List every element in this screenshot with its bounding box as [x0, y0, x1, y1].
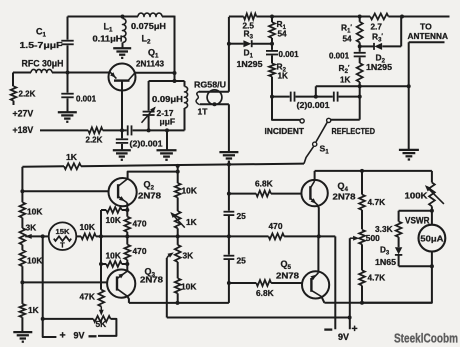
label 2N1143 [136, 60, 164, 69]
svg-text:470: 470 [269, 221, 283, 231]
wire emitter line to -9V [334, 236, 336, 329]
label 2.2K [19, 90, 36, 99]
wire chain upper [228, 164, 230, 210]
RFC 30uH choke [13, 69, 109, 72]
label L1 [104, 22, 114, 34]
svg-text:10K: 10K [80, 222, 95, 232]
label Q4 [338, 181, 349, 193]
3K wiper arrow [25, 234, 43, 239]
svg-text:100K: 100K [405, 191, 429, 201]
ground (coax shield) [219, 152, 238, 162]
label 1N65 [375, 258, 396, 267]
potentiometer 500 [359, 230, 365, 270]
capacitor (2)0.001 series coupling [128, 125, 149, 135]
wire Q4 collector line [315, 169, 432, 173]
svg-text:3K: 3K [26, 223, 37, 233]
svg-text:10K: 10K [106, 251, 121, 261]
svg-text:6.8K: 6.8K [255, 178, 273, 188]
label 15K (thermistor) [56, 227, 70, 236]
svg-text:9V: 9V [74, 331, 85, 341]
label 1K (R2') [340, 76, 351, 85]
label R2' [339, 63, 350, 75]
wire Q4 collector up [314, 171, 316, 181]
node mid column / emitter line [176, 234, 180, 238]
label 2N78 (Q5) [276, 271, 299, 281]
ground (L1) [113, 48, 131, 58]
node: C1 / RFC / bypass junction [66, 71, 70, 75]
svg-text:1T: 1T [198, 106, 209, 116]
label 0.11uH [93, 35, 123, 44]
label 1T [198, 106, 209, 116]
battery 9V (left) labels [60, 330, 97, 342]
label Q3 [145, 267, 156, 279]
node R1 top [270, 15, 274, 19]
svg-text:INCIDENT: INCIDENT [265, 126, 305, 136]
node 470 branch [227, 234, 231, 238]
svg-text:μμF: μμF [160, 117, 176, 127]
diode D1 1N295 [227, 40, 274, 47]
resistor 470 (to Q4 emitter) [269, 233, 336, 239]
label R2 [277, 62, 287, 74]
label 0.075uH [131, 22, 166, 31]
label REFLECTED [332, 126, 376, 136]
switch S1 arm [316, 122, 327, 142]
label T (thermistor) [60, 241, 65, 250]
svg-text:500: 500 [366, 233, 380, 243]
label 2.2K (+18V) [86, 136, 103, 145]
svg-text:47K: 47K [80, 292, 95, 302]
resistor 1K (in long rail) [64, 163, 81, 169]
svg-text:3K: 3K [183, 251, 194, 261]
label 25 (upper) [237, 211, 247, 221]
svg-text:25: 25 [237, 256, 247, 266]
wire incident branch [272, 97, 300, 120]
thermistor 15K/T circle [49, 222, 77, 250]
label 500 [366, 233, 380, 243]
svg-text:9V: 9V [338, 332, 349, 342]
coupling loop 1T [207, 90, 222, 105]
label R1' [341, 23, 352, 35]
node center tap + wire up [314, 86, 409, 98]
resistor 10K (to Q2 emitter) [101, 207, 129, 213]
node R1' top [358, 15, 362, 19]
svg-text:10K: 10K [27, 207, 42, 217]
svg-text:VSWR: VSWR [405, 215, 430, 225]
inductor L2 0.075uH (in top rail) [138, 13, 162, 16]
resistor R3 2.5 [244, 14, 257, 20]
contact INCIDENT [300, 119, 304, 123]
transistor Q4 2N78 [301, 180, 327, 206]
svg-text:+: + [60, 330, 66, 342]
wire Q2 collector up [128, 170, 180, 179]
bridge top wire [229, 16, 450, 18]
label 1K (rheostat) [186, 217, 197, 227]
svg-text:5K: 5K [96, 319, 107, 329]
wire chain lower [228, 260, 230, 303]
label 0.001 (left bridge) [279, 50, 300, 59]
watermark [394, 332, 458, 346]
label 4.7K (upper) [368, 197, 386, 207]
wire meter return [362, 266, 432, 303]
resistor 6.8K (Q4 base) [229, 191, 302, 197]
label 10K (mid column) [182, 186, 197, 196]
node 6.8K Q5 branch [227, 281, 231, 285]
svg-text:54: 54 [343, 35, 353, 44]
svg-text:REFLECTED: REFLECTED [332, 126, 376, 136]
wire Q2 base line [22, 190, 108, 192]
label 1N295 (D2) [366, 63, 392, 72]
diode D3 1N65 [395, 247, 432, 266]
label 0.001 (osc) [76, 95, 97, 104]
label R1 [277, 19, 287, 31]
label ANTENNA [408, 31, 449, 41]
node Q1 base junction [120, 128, 124, 132]
label D2 [376, 53, 386, 65]
svg-text:0.001: 0.001 [76, 95, 97, 104]
svg-text:T: T [60, 241, 65, 250]
ground (antenna) [399, 150, 419, 160]
svg-text:4.7K: 4.7K [368, 197, 386, 207]
wire coax center up to bridge [228, 17, 230, 92]
label 10K (rail upper) [27, 207, 42, 217]
svg-text:+18V: +18V [13, 125, 34, 135]
wire long rail from S1 [22, 164, 304, 167]
svg-text:1N65: 1N65 [375, 258, 396, 267]
resistor 10K (after 15K) [76, 234, 268, 240]
label D3 [380, 246, 390, 257]
capacitors (2)0.001 coupling pair [272, 92, 360, 102]
inductor 0.09uH (tank right) [185, 81, 188, 130]
label 50uA [420, 234, 443, 243]
meter VSWR 50uA [419, 225, 446, 252]
ground (left rail) [13, 332, 32, 342]
coax link top wire [199, 91, 229, 93]
resistor 6.8K (Q5 base) [229, 280, 302, 286]
label (2)0,001 (bridge) [297, 101, 330, 110]
svg-text:15K: 15K [56, 227, 70, 236]
wire +18V feed line [40, 129, 127, 131]
svg-text:3.3K: 3.3K [375, 224, 393, 234]
wire 3.3K branch top [399, 211, 432, 222]
wire chain middle [228, 216, 230, 255]
svg-text:1N295: 1N295 [366, 63, 392, 72]
capacitor 0.001 (emitter bypass) [61, 73, 73, 112]
svg-text:1N295: 1N295 [237, 60, 263, 69]
label S1 [320, 144, 330, 156]
svg-text:+27V: +27V [13, 109, 34, 119]
svg-text:2N78: 2N78 [333, 192, 356, 202]
svg-text:0.09μH: 0.09μH [152, 95, 183, 104]
svg-text:2N78: 2N78 [138, 191, 161, 201]
svg-text:1K: 1K [340, 76, 351, 85]
svg-text:RG58/U: RG58/U [194, 80, 226, 90]
wire Q3 collector line [129, 301, 229, 305]
svg-text:6.8K: 6.8K [256, 288, 274, 298]
label 2-17 [157, 108, 174, 118]
node meter top [430, 209, 434, 213]
node Q2/Q3 emitter junction [125, 234, 129, 238]
label 1.5-7uuF [20, 41, 63, 50]
svg-text:0.075μH: 0.075μH [131, 22, 166, 31]
label +18V [13, 125, 34, 135]
label +27V [13, 109, 34, 119]
label R3 [244, 29, 254, 41]
label 54 (R1) [278, 30, 288, 39]
wire wiper to 15K [43, 235, 49, 237]
svg-text:(2)0.001: (2)0.001 [297, 101, 330, 110]
label 25 (lower) [237, 256, 247, 266]
capacitor 0.001 (right bridge) [354, 46, 366, 63]
label 10K (to Q3 emitter) [106, 251, 121, 261]
label 5K [96, 319, 107, 329]
svg-text:0.001: 0.001 [279, 50, 300, 59]
capacitor C1 1.5-7uuF (vertical branch) [61, 17, 73, 73]
wire coax shield to ground [228, 104, 230, 151]
wire Q5 collector [321, 297, 432, 305]
wire meter bottom lead [430, 252, 434, 269]
wire feedback line to +9V [167, 316, 352, 320]
label 10K (right of Q3) [181, 282, 196, 292]
svg-text:1K: 1K [66, 152, 78, 162]
wire Q3 base line [22, 281, 107, 283]
resistor 10K (to Q3 emitter) [101, 261, 129, 267]
svg-text:1K: 1K [28, 305, 39, 315]
svg-text:0.11μH: 0.11μH [93, 35, 123, 44]
svg-text:470: 470 [133, 219, 147, 229]
wire S1 to long rail [304, 146, 314, 163]
svg-text:10K: 10K [182, 186, 197, 196]
rheostat 3K (mid column) [175, 245, 181, 278]
wire meter top lead [431, 211, 433, 225]
svg-text:10K: 10K [106, 215, 121, 225]
transistor Q2 2N78 [109, 178, 137, 206]
label 0.09uH [152, 95, 183, 104]
label C1 [36, 27, 47, 39]
label 3K (rail) [26, 223, 37, 233]
svg-text:ANTENNA: ANTENNA [408, 31, 449, 41]
label 2.7 [371, 23, 383, 32]
label L2 [142, 34, 152, 46]
svg-text:2.2K: 2.2K [86, 136, 103, 145]
wire wiper rail down [41, 236, 57, 337]
label Q1 [148, 48, 159, 60]
label 1N295 (D1) [237, 60, 263, 69]
label RFC 30uH [22, 59, 64, 69]
node Q2 base branch [20, 189, 24, 193]
svg-text:10K: 10K [181, 282, 196, 292]
inductor L1 0.11uH [121, 15, 126, 48]
svg-text:54: 54 [278, 30, 288, 39]
3K wiper bent arrow [167, 252, 174, 258]
label + (right battery) [352, 323, 358, 335]
label D1 [244, 48, 254, 60]
label 100K [405, 191, 429, 201]
node mid-left column top [99, 234, 103, 238]
label 2N78 (Q3) [140, 275, 163, 285]
transistor Q1 2N1143 [109, 64, 136, 91]
node 10K rail top junction [176, 164, 180, 168]
label 470 (Q4) [269, 221, 283, 231]
switch S1 pivot [313, 142, 317, 146]
resistor 10K (left rail upper) [20, 202, 26, 228]
svg-text:4.7K: 4.7K [368, 273, 386, 283]
svg-text:2.7: 2.7 [371, 23, 383, 32]
label 6.8K (Q4) [255, 178, 273, 188]
label RG58/U [194, 80, 226, 90]
wire top rail of oscillator [68, 16, 175, 81]
wire Q1 base down [121, 81, 123, 131]
tank circuit top wire [149, 79, 185, 83]
label 9V (right) [338, 332, 349, 342]
wire Q2 emitter down [126, 203, 128, 210]
resistor R3' 2.7 [370, 14, 388, 20]
label (2)0.001 [130, 140, 163, 149]
label 470 (lower) [133, 246, 147, 256]
label 470 (upper) [133, 219, 147, 229]
capacitor 25 (lower) [224, 256, 235, 259]
ground (emitter bypass) [58, 112, 77, 122]
resistor 1K (left rail lower) [20, 304, 26, 332]
label 3K (rheostat) [183, 251, 194, 261]
resistor 10K (right of Q3) [175, 278, 181, 303]
label uuF (tank) [160, 117, 176, 127]
svg-text:0.001: 0.001 [329, 52, 350, 61]
label TO [420, 22, 432, 32]
variable capacitor 2-17uuF (tank left) [142, 81, 156, 130]
label R3' [372, 32, 383, 44]
wire Q4 emitter down [317, 205, 321, 238]
label 10K (rail lower) [27, 256, 42, 266]
svg-text:SteeklCoobm: SteeklCoobm [394, 332, 458, 346]
wire 3K wiper feedback down [166, 258, 168, 318]
resistor 4.7K (lower) [359, 270, 365, 303]
label 47K [80, 292, 95, 302]
rheostat 1K (mid column) [170, 211, 185, 245]
wire Q1 collector to tank [135, 71, 177, 75]
transistor Q5 2N78 [302, 271, 329, 298]
svg-text:25: 25 [237, 211, 247, 221]
svg-text:1K: 1K [278, 72, 289, 81]
label 6.8K (Q5) [256, 288, 274, 298]
node 3K wiper / down-wire [41, 234, 45, 238]
coax link bottom wire [200, 102, 229, 106]
coax cable end squiggle [196, 91, 200, 104]
svg-text:50μA: 50μA [420, 234, 443, 243]
wire ground branch (tank bottom) [165, 128, 169, 149]
svg-text:2N78: 2N78 [140, 275, 163, 285]
capacitor (2)0.001 shunt + ground [113, 130, 131, 159]
node chain top [227, 162, 231, 166]
wire +9V lead up to 500 wiper [349, 238, 351, 329]
battery 9V (right) minus lead label [324, 328, 332, 330]
svg-text:470: 470 [133, 246, 147, 256]
potentiometer 5K [43, 316, 117, 336]
label 54 (R1') [343, 35, 353, 44]
label 2N78 (Q4) [333, 192, 356, 202]
resistor 3.3K [396, 222, 402, 248]
transistor Q3 2N78 [107, 270, 135, 298]
resistor 10K (left rail lower) [20, 250, 26, 304]
svg-text:2N1143: 2N1143 [136, 60, 164, 69]
label 1K (rail lower) [28, 305, 39, 315]
resistor 4.7K (upper) [359, 171, 365, 229]
resistor R2' 1K [357, 63, 363, 120]
label 10K (after 15K) [80, 222, 95, 232]
svg-text:1.5-7μμF: 1.5-7μμF [20, 41, 63, 50]
label Q5 [281, 259, 292, 271]
resistor 2.2K (to +27V) [11, 73, 17, 106]
node Q3 base branch [20, 280, 24, 284]
svg-text:1K: 1K [186, 217, 197, 227]
svg-text:10K: 10K [27, 256, 42, 266]
label 4.7K (lower) [368, 273, 386, 283]
label Q2 [144, 180, 155, 192]
potentiometer 3K (left rail) [20, 228, 26, 250]
wire left rail (vertical) [21, 167, 23, 203]
wire Q5 emitter up [317, 238, 319, 273]
node R2' / center line [358, 84, 362, 98]
tank bottom wire [147, 128, 185, 132]
wire reflected branch [331, 119, 360, 121]
resistor R2 1K [269, 63, 275, 96]
47K wiper arrow onto 5K [99, 306, 104, 315]
svg-text:2N78: 2N78 [276, 271, 299, 281]
label 0.001 (right bridge) [329, 52, 350, 61]
label 10K (to Q2 emitter) [106, 215, 121, 225]
resistor R1 54 [269, 17, 275, 44]
node 6.8K Q4 branch [227, 192, 231, 196]
svg-text:(2)0.001: (2)0.001 [130, 140, 163, 149]
label 3.3K [375, 224, 393, 234]
resistor 2.2K (in +18V line) [88, 127, 102, 133]
label INCIDENT [265, 126, 305, 136]
label 2.5 [243, 22, 255, 31]
capacitor 0.001 (left bridge) [266, 44, 278, 64]
ground (tank bottom) [157, 150, 177, 160]
label 2N78 (Q2) [138, 191, 161, 201]
resistor 470 (upper) [124, 210, 130, 236]
label VSWR [405, 215, 430, 225]
500 wiper arrow [350, 236, 360, 241]
contact REFLECTED [327, 118, 331, 122]
resistor 47K [98, 290, 104, 307]
resistor 470 (lower) [124, 236, 130, 270]
diode D2 1N295 [358, 15, 404, 50]
rheostat 100K [425, 171, 444, 211]
svg-text:RFC 30μH: RFC 30μH [22, 59, 64, 69]
resistor R1' 54 [357, 17, 363, 47]
wire mid-left column [99, 210, 103, 290]
node R2 bottom [270, 95, 274, 99]
capacitor 25 (upper) [224, 212, 235, 215]
wire Q3 collector down-right [127, 296, 128, 303]
svg-text:+: + [352, 323, 358, 335]
label 1K (rail) [66, 152, 78, 162]
label 1K (R2) [278, 72, 289, 81]
wire antenna return stub [407, 42, 445, 149]
resistor 10K (mid column) [175, 165, 181, 211]
svg-text:2.2K: 2.2K [19, 90, 36, 99]
